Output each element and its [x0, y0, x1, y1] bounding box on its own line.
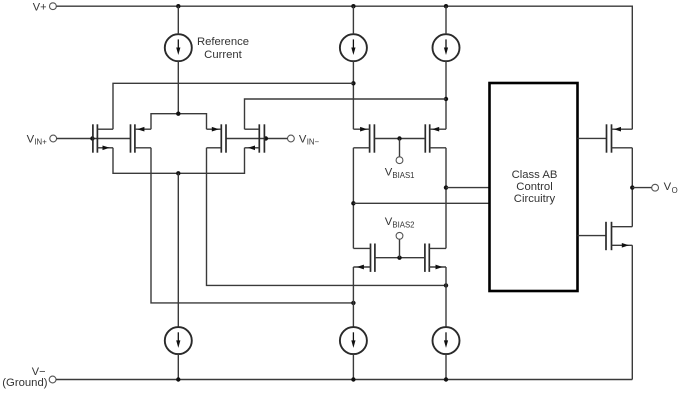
node junction output [630, 185, 634, 189]
transistor Q8 (cascode NMOS right, V_BIAS2) [425, 244, 446, 272]
wire I3 top lead [445, 6, 447, 34]
wire NMOS tail down to current source I4 [177, 173, 179, 327]
wire Q2 drain down to y303 wire [151, 148, 353, 303]
transistor Q6 (cascode PMOS right, V_BIAS1) [425, 124, 446, 152]
node junction V_IN+ gate wire at Q1 [90, 136, 94, 140]
wire V_IN- gate wire to Q3,Q4 gates [226, 138, 288, 140]
block U1 Class AB Control Circuitry [490, 83, 578, 291]
current source I5 [340, 327, 367, 354]
node junction column3 / y99 wire [444, 97, 448, 101]
wire V_BIAS2 gate wire [375, 257, 425, 259]
node junction bottom rail / I4 [176, 377, 180, 381]
wire Class AB box to Q9 gate [578, 137, 607, 139]
svg-text:V: V [27, 133, 35, 145]
wire I2 top lead [352, 6, 354, 34]
svg-text:IN−: IN− [307, 138, 320, 147]
node junction V_BIAS1 stub [397, 136, 401, 140]
svg-text:Current: Current [204, 49, 243, 61]
transistor Q4 (input NMOS, V_IN-) [245, 124, 265, 152]
svg-text:Reference: Reference [197, 36, 249, 48]
node junction top rail / column 2 [351, 4, 355, 8]
current source I4 (tail) [165, 327, 192, 354]
wire Q10 source down to bottom rail corner [631, 245, 633, 379]
transistor Q7 (cascode NMOS left, V_BIAS2) [353, 244, 375, 272]
wire I4 to bottom rail [177, 354, 179, 379]
svg-text:V: V [299, 133, 307, 145]
transistor Q9 (output PMOS) [607, 124, 633, 152]
svg-text:Class AB: Class AB [512, 169, 558, 181]
node junction y285 wire / column3 [444, 283, 448, 287]
node junction y303 wire / column2 [351, 301, 355, 305]
node V+ terminal [33, 1, 57, 13]
svg-text:V+: V+ [33, 1, 47, 13]
node V_BIAS1 terminal [385, 157, 415, 180]
wire Q10 drain up to output node [631, 188, 633, 227]
wire Class AB box to Q10 gate [578, 235, 607, 237]
node V_BIAS2 terminal [385, 216, 415, 239]
node junction column3 / wire to Class AB box [444, 185, 448, 189]
node junction bottom rail / I5 [351, 377, 355, 381]
wire column2 to Class AB box (lower) [353, 202, 489, 204]
wire V_IN+ gate wire to Q1,Q2 gates [57, 138, 131, 140]
svg-text:Circuitry: Circuitry [514, 193, 556, 205]
node junction top rail / reference current [176, 4, 180, 8]
transistor Q5 (cascode PMOS left, V_BIAS1) [353, 124, 374, 152]
wire V_BIAS2 stub [399, 239, 401, 258]
current source I3 [433, 34, 460, 61]
wire I3 bottom lead down to cascode source [445, 61, 447, 129]
wire top V+ supply rail [56, 6, 632, 129]
wire Q8 source down to y285 junction and I6 [445, 267, 447, 327]
transistor Q2 (input PMOS, V_IN+) [131, 124, 152, 152]
wire V_BIAS1 gate wire [374, 138, 425, 140]
wire I6 to bottom rail [445, 354, 447, 379]
current source I6 [433, 327, 460, 354]
wire Q4 drain up and over to column3 (y99) [245, 99, 447, 129]
wire Q6 drain down column3 to Q8 drain [445, 148, 447, 249]
wire output node to V_O terminal [632, 187, 651, 189]
svg-text:Control: Control [516, 181, 552, 193]
wire bottom V- rail [56, 379, 632, 381]
node junction column2 / wire to Class AB box [351, 201, 355, 205]
svg-text:(Ground): (Ground) [2, 377, 47, 389]
wire input PMOS-pair top rail (tail) [151, 114, 207, 130]
wire Q1 drain up and over to column2 (y83) [113, 83, 353, 129]
node junction column2 / y83 wire [351, 81, 355, 85]
node junction V_IN- gate wire at Q4 [264, 136, 268, 140]
wire I1 top lead [177, 6, 179, 34]
transistor Q1 (input NMOS, V_IN+) [93, 124, 113, 152]
node junction tail / input top rail [176, 112, 180, 116]
wire V_BIAS1 stub [399, 139, 401, 157]
current source I2 [340, 34, 367, 61]
transistor Q10 (output NMOS) [606, 222, 632, 250]
wire I1 bottom lead to input-pair top rail [177, 61, 179, 113]
current source I1 (Reference Current) [165, 34, 192, 61]
svg-text:BIAS1: BIAS1 [392, 171, 414, 180]
node V_IN- terminal [288, 133, 320, 146]
svg-text:V−: V− [32, 366, 46, 378]
wire I2 bottom lead down to cascode source [352, 61, 354, 129]
wire I5 to bottom rail [352, 354, 354, 379]
node V_IN+ terminal [27, 133, 57, 146]
wire Q7 source down to y303 junction and I5 [352, 267, 354, 327]
transistor Q3 (input PMOS, V_IN-) [207, 124, 227, 152]
svg-text:O: O [672, 186, 678, 195]
wire column3 to Class AB box (upper) [446, 187, 490, 189]
node junction top rail / column 3 [444, 4, 448, 8]
svg-text:V: V [664, 181, 672, 193]
wire Q9 drain down to output node [631, 148, 633, 188]
svg-text:BIAS2: BIAS2 [392, 221, 414, 230]
node junction bottom rail / I6 [444, 377, 448, 381]
node junction V_BIAS2 stub [397, 256, 401, 260]
wire Q3 drain down to y285 wire [207, 148, 447, 286]
node V- (Ground) terminal [2, 366, 56, 389]
node junction NMOS tail [176, 171, 180, 175]
wire Q5 drain down column2 to Q7 drain [352, 148, 354, 249]
wire input NMOS-pair source rail [113, 148, 245, 174]
node V_O terminal [652, 181, 678, 195]
svg-text:IN+: IN+ [34, 138, 47, 147]
